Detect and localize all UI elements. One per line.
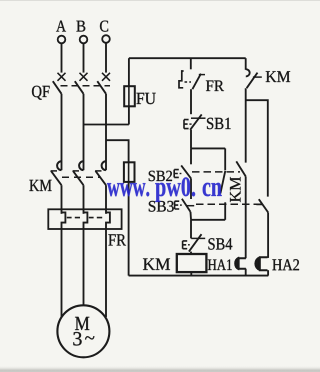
pushbutton SB1 E-head — [184, 120, 189, 129]
wire C terminal to QF — [105, 43, 107, 73]
wire SB4 to coil — [190, 252, 192, 254]
QF pole B x-mark — [80, 73, 88, 81]
wire C FR to motor — [105, 229, 107, 317]
SB2 contact arm — [181, 165, 191, 178]
SB3 linkage dashed line — [196, 203, 263, 205]
wire HA2 to rail — [267, 270, 269, 275]
terminal B label — [76, 21, 85, 32]
contactor KM main pole A arc — [57, 161, 61, 170]
wire HA1 to rail — [245, 269, 247, 276]
contact KM latch arm — [220, 171, 225, 194]
bell HA1 dome — [235, 258, 238, 270]
SB3 contact tick — [187, 205, 195, 207]
bell HA2 dome — [255, 257, 259, 270]
contact KM HA2 tick — [256, 204, 262, 206]
wire A terminal to QF — [61, 43, 63, 72]
wire A QF to KM — [61, 94, 63, 170]
control bottom rail — [129, 275, 269, 277]
FU label — [136, 93, 155, 104]
bell HA2 bracket — [260, 257, 268, 270]
FR bracket dashes — [185, 81, 192, 83]
parallel box top wire — [191, 147, 225, 149]
FR label power — [108, 234, 126, 245]
KM pole B arm tick — [73, 170, 79, 172]
HA2 label — [272, 259, 299, 270]
wire branch phase B to FU1 — [84, 124, 129, 126]
wire FR branch drop — [190, 58, 192, 69]
SB1 label — [207, 118, 231, 129]
QF pole A x-mark — [58, 73, 66, 81]
SB3 contact arm — [182, 199, 191, 212]
parallel box bottom wire — [191, 219, 225, 221]
pushbutton SB2 E-head — [174, 170, 179, 178]
FR heater element A — [62, 212, 66, 229]
relay contact FR bracket — [179, 71, 184, 88]
motor M label — [75, 317, 89, 330]
SB4 contact tick — [191, 237, 205, 239]
QF pole C arm — [97, 81, 106, 94]
terminal A circle — [58, 36, 66, 44]
contact KM HA2 arm — [259, 199, 268, 212]
branch to HA2 column — [246, 100, 268, 196]
SB4 label — [208, 238, 232, 249]
KM pole C arm tick — [95, 170, 101, 172]
wire C KM to FR — [105, 185, 107, 214]
QF label — [32, 86, 50, 100]
coil KM — [177, 254, 207, 272]
wire B FR to motor — [83, 229, 85, 306]
motor M circle — [57, 305, 109, 357]
motor 3~ label — [73, 332, 94, 345]
bell HA1 bracket — [239, 258, 246, 269]
SB1 E link dash — [189, 123, 191, 125]
FR contact arm — [192, 74, 201, 90]
wire FU2 through — [128, 162, 130, 182]
FR heater element C — [106, 212, 110, 229]
watermark www.pw0.cn — [107, 177, 222, 202]
KM aux contact tick — [253, 76, 262, 78]
wire C QF to KM — [105, 94, 107, 170]
SB3 label — [149, 201, 174, 212]
wire FU1 through — [128, 86, 130, 106]
fuse FU1 — [124, 86, 135, 106]
FR heater dashed links — [67, 217, 102, 219]
SB1 contact arm — [190, 114, 202, 129]
KM pole A arm tick — [51, 170, 57, 172]
KM vertical label — [230, 177, 240, 202]
FR contact tick — [199, 74, 205, 76]
SB2 label — [149, 171, 172, 181]
wire box right lower — [224, 202, 226, 220]
QF pole C x-mark — [102, 73, 110, 81]
HA1 label — [208, 259, 232, 270]
wire B KM to FR — [83, 185, 85, 214]
contactor KM main pole B arc — [79, 161, 83, 170]
SB1 contact tick — [191, 117, 206, 119]
wire SB2 to SB3 — [190, 178, 192, 199]
wire box right upper — [224, 148, 226, 170]
SB2 E link dash — [180, 173, 182, 175]
KM aux contact arm — [247, 73, 258, 89]
terminal A label — [56, 21, 66, 32]
wire coil to rail — [190, 272, 192, 276]
contactor KM main pole C arc — [102, 161, 106, 170]
wire left rail down — [128, 182, 130, 276]
wire FR to SB1 — [190, 89, 192, 114]
KM aux contact arc — [246, 69, 250, 76]
wire FU1 bottom — [128, 106, 130, 124]
wire A FR to motor — [61, 229, 63, 317]
QF pole A arm — [53, 81, 62, 94]
terminal C label — [100, 21, 108, 32]
SB4 contact arm — [189, 234, 202, 251]
pushbutton SB3 E-head — [175, 201, 180, 209]
wire to HA1 — [245, 176, 247, 258]
SB4 E link dash — [188, 244, 190, 246]
KM pole C arm — [96, 171, 107, 185]
contact KM HA1 arm — [236, 161, 245, 176]
wire B terminal to QF — [83, 43, 85, 72]
KM linkage dashed line — [62, 176, 101, 178]
wire B QF to KM — [83, 94, 85, 170]
wire SB4 column — [190, 220, 192, 239]
KM main label — [29, 180, 51, 191]
wire SB3 to box bottom — [190, 212, 193, 220]
wire box left upper — [190, 148, 192, 164]
wire FU1 top to rail — [128, 58, 130, 86]
control top rail — [129, 57, 246, 59]
fuse FU2 — [124, 162, 135, 182]
terminal C circle — [102, 35, 110, 43]
KM pole A arm — [51, 171, 62, 185]
wire to HA2 — [267, 212, 269, 258]
KM coil label — [143, 258, 170, 269]
SB3 E link dash — [180, 204, 182, 206]
FR label control — [206, 81, 224, 91]
terminal B circle — [80, 36, 88, 44]
SB2 linkage dashed line — [192, 171, 240, 173]
FR heater element B — [84, 212, 88, 229]
QF linkage dashed line — [61, 85, 111, 87]
wire KM aux down — [245, 88, 247, 162]
QF pole B arm — [75, 81, 84, 94]
thermal relay FR box — [48, 209, 121, 229]
wire A KM to FR — [61, 185, 63, 214]
wire SB1 to box — [190, 130, 192, 149]
pushbutton SB4 E-head — [183, 241, 188, 249]
KM pole B arm — [73, 171, 84, 185]
wire branch phase C to FU2 — [106, 140, 129, 162]
KM aux label — [266, 71, 290, 82]
KM aux contact drop — [245, 58, 247, 70]
